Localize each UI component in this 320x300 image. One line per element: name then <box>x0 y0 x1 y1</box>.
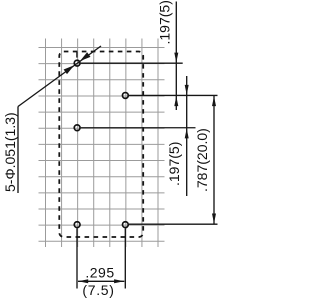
svg-text:.295: .295 <box>85 264 114 280</box>
extension line row2 <box>129 94 218 96</box>
grid vertical lines <box>46 39 159 248</box>
hole 5 <box>122 222 128 228</box>
extension line row5 <box>129 223 218 225</box>
svg-text:(7.5): (7.5) <box>82 282 114 298</box>
bottom extension lines (.295) <box>76 228 78 288</box>
hole 2 <box>122 93 128 99</box>
svg-text:5-Φ.051(1.3): 5-Φ.051(1.3) <box>2 112 18 192</box>
bottom dimension line (.295(7.5)) <box>78 279 124 283</box>
svg-text:.197(5): .197(5) <box>156 0 172 44</box>
extension line row1 <box>81 62 183 64</box>
dimension line 2 (.197(5) middle) <box>185 76 189 196</box>
dimension line 3 (.787(20.0)) <box>212 96 216 224</box>
grid horizontal lines <box>39 48 165 242</box>
svg-text:.197(5): .197(5) <box>166 142 182 186</box>
dimension line 1 (.197(5) top) <box>174 2 178 111</box>
hole 4 <box>74 222 80 228</box>
hole 1 <box>74 60 80 66</box>
hole leader line (5-phi) <box>18 46 101 193</box>
hole 3 <box>74 125 80 131</box>
extension line row3 <box>81 127 196 129</box>
hole 1 center tick <box>76 52 78 58</box>
component outline (dashed rectangle) <box>59 52 143 238</box>
svg-text:.787(20.0): .787(20.0) <box>194 128 210 192</box>
